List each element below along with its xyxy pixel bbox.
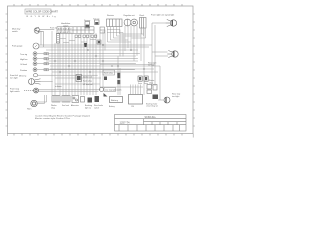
svg-text:Spark plug: Spark plug — [83, 81, 92, 83]
svg-text:rear stop light switch: rear stop light switch — [105, 88, 121, 91]
small box C — [81, 97, 85, 103]
svg-text:turn light: turn light — [10, 76, 18, 79]
horizontal bus wires — [46, 50, 160, 87]
connector block pin text — [58, 27, 72, 30]
starter relay K2 — [147, 85, 157, 94]
connector box A — [52, 96, 60, 103]
legend box — [25, 9, 58, 14]
svg-text:Turn sig: Turn sig — [20, 54, 27, 56]
svg-text:Meter lp: Meter lp — [19, 75, 27, 78]
main key switch label — [12, 29, 21, 33]
fuel gauge M1 — [33, 43, 39, 49]
dark box E — [95, 96, 100, 102]
connector pair row3 — [44, 63, 48, 65]
tail light TL1 — [164, 97, 170, 103]
junction dark blob — [84, 43, 87, 47]
front left turn light LT1 — [29, 79, 41, 85]
svg-text:relay: relay — [149, 82, 153, 84]
wire indicator L2 — [37, 58, 138, 60]
spark plug label box — [103, 70, 115, 75]
svg-text:CDI: CDI — [131, 106, 135, 108]
svg-text:B R Y G W L Br O: B R Y G W L Br O — [58, 27, 72, 30]
ignition coil label — [83, 76, 93, 79]
svg-text:Horn: Horn — [27, 109, 31, 111]
wire to tail light — [158, 66, 164, 100]
vertical harness wires from connector block — [60, 33, 96, 95]
title block heading — [145, 117, 157, 119]
two-cell connector right of block — [100, 27, 105, 33]
fuse box 2 — [144, 76, 148, 81]
starter relay label — [149, 79, 155, 84]
short wire jogs — [60, 39, 96, 43]
CDI pin wires — [131, 85, 141, 95]
svg-text:Flash: Flash — [140, 15, 145, 17]
tail light label — [172, 93, 180, 98]
indicator lamp L2 — [33, 57, 37, 61]
battery BT1 — [110, 97, 123, 103]
fuse dark box — [153, 95, 159, 100]
extra right bus line — [100, 64, 152, 66]
border frame — [8, 6, 194, 134]
wire fuel gauge B — [39, 46, 149, 48]
wires to rear right turn light — [152, 52, 168, 56]
horn H1 — [31, 100, 37, 106]
frame tick marks — [6, 4, 196, 136]
wire horn — [37, 95, 47, 104]
svg-text:Resistor: Resistor — [107, 14, 114, 17]
horn label — [27, 109, 31, 111]
wire front stop switch B — [38, 90, 98, 92]
svg-text:Fuse: Fuse — [138, 83, 142, 85]
wire front left turn light — [41, 81, 53, 83]
rear stop switch box outline — [104, 88, 116, 92]
connector box B — [62, 96, 70, 103]
regulator label — [124, 14, 136, 17]
svg-text:Regulate unit: Regulate unit — [124, 14, 136, 17]
main key switch SW1 — [34, 27, 40, 33]
svg-text:Push sw: Push sw — [50, 27, 58, 29]
indicator lamp L4 label — [20, 69, 27, 72]
fuse labels — [138, 83, 148, 85]
indicator lamp L3 — [33, 62, 37, 66]
speedometer lamp label — [19, 75, 27, 78]
svg-text:1257-T4: 1257-T4 — [120, 121, 131, 125]
svg-text:light sw: light sw — [85, 106, 92, 109]
wire to front right turn light — [152, 23, 166, 86]
svg-text:Front right turn signal light: Front right turn signal light — [151, 13, 175, 16]
indicator lamp L1 — [33, 52, 37, 56]
svg-text:Oil level: Oil level — [20, 64, 28, 66]
caption line 1 — [35, 114, 90, 117]
connector box B label — [62, 104, 69, 107]
wire indicator L3 — [37, 63, 136, 65]
svg-text:circuit relay sw: circuit relay sw — [146, 105, 158, 108]
svg-text:Fuel gauge: Fuel gauge — [12, 46, 23, 48]
rear stop switch label — [105, 88, 121, 91]
vertical harness wires left group — [52, 31, 58, 95]
indicator lamp L2 label — [20, 59, 28, 61]
indicator lamp L3 label — [20, 64, 28, 66]
staircase wires resistor to flasher — [108, 27, 146, 42]
front stop switch label — [10, 88, 20, 93]
svg-text:Custom Great Bicycle Electric: Custom Great Bicycle Electric Scooter Pa… — [35, 114, 90, 117]
flash unit label — [140, 15, 145, 17]
turn switch unit box — [95, 20, 100, 25]
box E label — [94, 105, 103, 109]
title block — [115, 115, 187, 132]
vertical pair to battery — [119, 68, 121, 95]
svg-text:HT lead coil: HT lead coil — [83, 84, 93, 86]
fuel gauge label — [12, 46, 23, 48]
svg-text:turn light: turn light — [148, 64, 156, 67]
starting motor label — [146, 102, 158, 107]
resistor R1 — [107, 19, 123, 27]
front stop light switch SW2 — [24, 88, 38, 93]
svg-text:SCSO-KLL: SCSO-KLL — [145, 117, 157, 119]
wire front stop switch A — [38, 89, 100, 91]
indicator lamp L4 — [33, 68, 37, 72]
dark box D — [88, 98, 93, 103]
push switch label — [50, 27, 58, 29]
small mesh label — [55, 85, 62, 88]
title block model number — [120, 121, 131, 125]
extra junction dots — [54, 60, 118, 72]
diode blob — [104, 93, 108, 97]
regulator U3 — [124, 19, 138, 26]
connector pair row1 — [44, 53, 48, 55]
svg-text:High bm: High bm — [20, 59, 28, 61]
caption line 2 — [35, 117, 71, 120]
front right turn light LT2 — [166, 20, 177, 27]
connector box A label — [51, 105, 57, 109]
dark box D label — [85, 105, 92, 109]
svg-text:relay: relay — [51, 107, 55, 109]
svg-text:Battery: Battery — [109, 105, 115, 108]
connector pair row2 — [44, 58, 48, 60]
vertical harness wires right group — [100, 31, 118, 95]
wire drop from key switch — [40, 31, 42, 45]
handlebar switch connector block J1 — [57, 27, 94, 34]
ignition coil T2 dark — [117, 73, 120, 84]
connector pair row4 — [44, 69, 48, 71]
svg-text:light switch: light switch — [10, 90, 20, 93]
svg-text:Ignition coil: Ignition coil — [83, 76, 93, 79]
connector row under block J2 — [75, 35, 97, 37]
CDI unit U4 — [129, 95, 143, 105]
svg-text:Dimmer: Dimmer — [84, 20, 91, 22]
battery label — [109, 105, 115, 108]
indicator lamp L1 label — [20, 54, 27, 56]
wire fuel gauge A — [39, 44, 152, 46]
legend abbreviations row — [27, 15, 57, 18]
fuse box 1 — [138, 76, 142, 81]
magneto label — [71, 104, 79, 107]
coil note line3 — [83, 84, 93, 86]
magneto G1 — [72, 96, 79, 103]
wire from key switch top — [40, 28, 55, 30]
wire lamp L5 — [38, 74, 98, 76]
rear right turn light LT3 — [167, 51, 178, 58]
front right turn light label — [151, 13, 175, 16]
CDI label — [131, 106, 135, 108]
front left turn light label — [10, 74, 18, 79]
svg-text:switch: switch — [12, 30, 19, 33]
dimmer relay K1 — [85, 22, 90, 29]
dimmer relay label — [84, 20, 91, 22]
svg-text:Position: Position — [20, 69, 27, 72]
wire indicator L4 — [37, 69, 135, 71]
small component box F — [97, 40, 101, 44]
speedometer lamp L5 — [33, 74, 37, 77]
connector block pin text row2 — [58, 31, 72, 34]
svg-text:Fuel unit: Fuel unit — [62, 104, 69, 107]
rear stop switch SW4 — [100, 88, 104, 92]
spark plug dark element — [104, 77, 107, 81]
svg-text:WIRE COLOR CODE CHART: WIRE COLOR CODE CHART — [26, 11, 58, 14]
turn switch unit label — [93, 18, 100, 20]
rear right turn light label — [148, 61, 157, 66]
wire indicator L1 — [37, 53, 140, 55]
wire from key switch bottom — [40, 31, 44, 47]
handlebar switch label — [61, 23, 71, 27]
svg-text:to frame: to frame — [55, 85, 62, 88]
svg-text:R G Y B W Br Lg: R G Y B W Br Lg — [27, 15, 57, 18]
svg-text:switch: switch — [94, 106, 99, 109]
resistor label — [107, 14, 114, 17]
push switch SW3 — [56, 34, 59, 44]
svg-text:turn light: turn light — [172, 95, 180, 98]
svg-text:Alternator: Alternator — [71, 104, 79, 107]
svg-text:Electric scooter style: Foshan: Electric scooter style: Foshan 125cc — [35, 117, 71, 120]
wires dropping from top components — [105, 26, 144, 95]
spark plug label — [83, 81, 92, 83]
junction dots — [59, 44, 144, 72]
svg-text:Spark plug: Spark plug — [104, 73, 113, 75]
ignition coil T1 — [76, 75, 82, 82]
flasher F1 — [140, 18, 147, 29]
frame corner overshoot — [8, 134, 194, 138]
svg-text:Battery: Battery — [111, 99, 119, 102]
